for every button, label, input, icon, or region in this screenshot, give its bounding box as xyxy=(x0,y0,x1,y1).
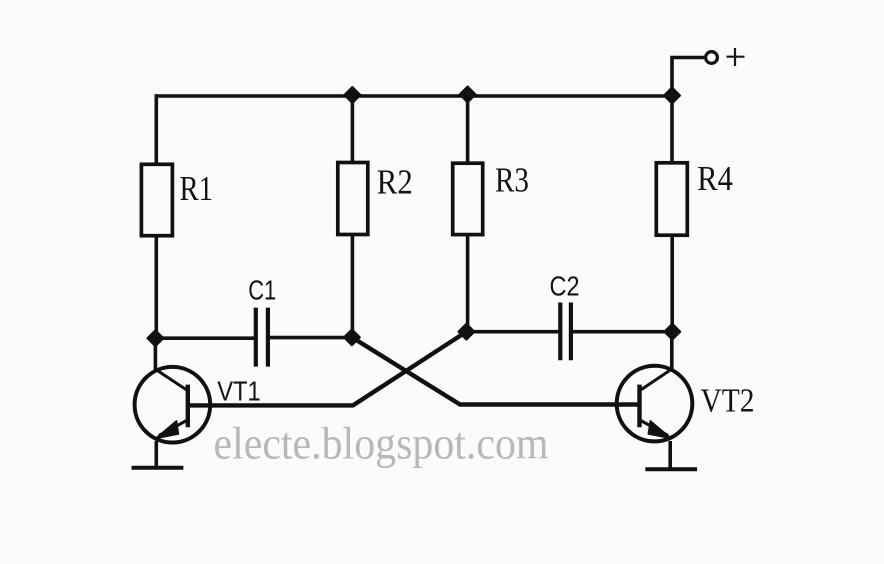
VT2 collector wire xyxy=(670,332,674,371)
VT1 base bar xyxy=(186,385,190,428)
svg-text:VT1: VT1 xyxy=(217,376,261,407)
resistor R2 xyxy=(338,163,368,235)
svg-text:electe.blogspot.com: electe.blogspot.com xyxy=(214,418,549,469)
node top rail R2 xyxy=(344,87,360,103)
wire R3 bottom lead xyxy=(466,235,470,332)
wire R4 top lead xyxy=(670,96,674,163)
capacitor C1 xyxy=(256,308,268,367)
resistor R3 xyxy=(453,163,483,234)
wire R1 bottom lead xyxy=(155,236,159,340)
node B under R3 xyxy=(458,324,474,340)
node A under R2 xyxy=(344,329,360,345)
wire C2 right segment xyxy=(572,330,672,334)
wire top rail xyxy=(155,94,672,98)
svg-text:C2: C2 xyxy=(550,270,580,301)
wire R3 top lead xyxy=(466,94,470,163)
terminal circle xyxy=(706,52,718,64)
node under R4 xyxy=(664,324,680,340)
VT1 body circle xyxy=(135,367,211,443)
VT2 base bar xyxy=(637,385,641,428)
svg-text:C1: C1 xyxy=(248,274,276,305)
resistor R4 xyxy=(656,163,687,235)
wire C2 left segment xyxy=(466,330,560,334)
svg-text:R2: R2 xyxy=(377,163,413,202)
VT1 emitter arrow xyxy=(156,421,179,439)
svg-text:VT2: VT2 xyxy=(701,383,755,420)
wire R2 bottom lead xyxy=(351,235,355,338)
VT1 emitter wire xyxy=(155,441,159,466)
wire C1 left segment xyxy=(155,336,254,340)
wire cross link node A to VT2 base xyxy=(352,337,639,404)
plus sign xyxy=(727,48,745,66)
VT2 emitter arrow xyxy=(648,421,671,439)
node VT1 collector xyxy=(147,330,163,346)
wire supply riser xyxy=(672,58,705,97)
VT2 collector lead xyxy=(640,369,672,390)
VT1 collector wire xyxy=(154,338,158,371)
svg-text:R3: R3 xyxy=(495,161,529,200)
VT2 emitter lead xyxy=(640,420,668,436)
VT2 ground xyxy=(645,467,697,471)
wire R4 bottom lead xyxy=(670,235,674,332)
svg-text:R1: R1 xyxy=(180,169,214,208)
VT1 emitter lead xyxy=(159,420,188,436)
capacitor C2 xyxy=(560,303,571,361)
VT2 body circle xyxy=(617,366,693,442)
wire C1 right segment xyxy=(270,336,353,340)
transistor VT2 xyxy=(617,332,755,470)
VT1 collector lead xyxy=(156,370,188,391)
node top rail R3 xyxy=(460,86,476,102)
node top rail R4 xyxy=(664,88,680,104)
svg-text:R4: R4 xyxy=(697,159,733,198)
VT1 ground xyxy=(132,466,184,470)
transistor VT1 xyxy=(132,338,261,468)
resistor R1 xyxy=(141,164,172,235)
wire R1 top lead xyxy=(155,94,159,163)
wire cross link node B to VT1 base xyxy=(189,332,466,406)
VT2 emitter wire xyxy=(668,441,672,468)
wire R2 top lead xyxy=(351,96,355,163)
